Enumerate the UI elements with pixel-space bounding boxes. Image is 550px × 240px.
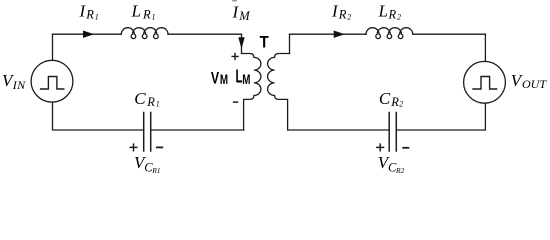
svg-text:I: I [331, 1, 339, 20]
minus sign at transformer primary bottom [234, 101, 238, 103]
svg-text:R: R [390, 95, 399, 109]
artifact mark top [232, 0, 237, 1]
svg-text:M: M [238, 9, 250, 23]
svg-text:2: 2 [397, 12, 401, 21]
source VOUT circle [464, 61, 506, 103]
transformer primary winding LM [242, 54, 261, 131]
svg-text:M: M [242, 72, 250, 88]
capacitor CR2 plates [389, 113, 396, 152]
svg-text:C: C [134, 89, 146, 108]
svg-text:1: 1 [152, 12, 156, 21]
svg-text:L: L [131, 1, 141, 20]
source VIN pulse symbol [41, 77, 64, 90]
current arrow IM [238, 37, 244, 49]
svg-text:2: 2 [399, 100, 403, 109]
wire top horizontal (LR1 to IM node) [168, 33, 242, 35]
svg-text:C: C [379, 89, 391, 108]
inductor LR1 [121, 28, 168, 39]
svg-text:R: R [85, 8, 94, 22]
svg-text:I: I [79, 1, 87, 20]
svg-text:R: R [142, 8, 151, 22]
wire bottom between transformer and CR2 [288, 129, 390, 131]
svg-text:OUT: OUT [522, 77, 547, 91]
svg-text:L: L [378, 1, 388, 20]
wire top-right vertical from transformer [289, 34, 291, 53]
svg-text:1: 1 [95, 12, 99, 21]
svg-text:R: R [146, 95, 155, 109]
plus sign CR2 [377, 144, 384, 151]
source VOUT pulse symbol [473, 77, 497, 90]
svg-text:R2: R2 [395, 166, 405, 175]
svg-text:R: R [338, 8, 347, 22]
svg-text:M: M [220, 72, 228, 88]
wire left vertical from VIN top [52, 34, 54, 60]
minus sign CR1 [157, 146, 163, 148]
svg-text:R: R [388, 8, 397, 22]
wire bottom between CR1 and transformer [151, 129, 244, 131]
minus sign CR2 [403, 147, 408, 149]
capacitor CR1 plates [144, 113, 151, 152]
wire VOUT top lead [484, 34, 486, 61]
svg-text:T: T [260, 34, 269, 52]
current arrow IR1 [83, 31, 94, 38]
wire top-left horizontal (VIN to LR1) [53, 33, 122, 35]
svg-text:1: 1 [156, 100, 160, 109]
source VIN circle [31, 60, 73, 102]
svg-text:R1: R1 [151, 166, 160, 175]
wire top-right horizontal (transformer to LR2) [290, 33, 367, 35]
svg-text:IN: IN [12, 78, 26, 92]
svg-text:L: L [236, 67, 243, 87]
plus sign at transformer primary top [232, 54, 238, 60]
inductor LR2 [366, 28, 413, 39]
wire top horizontal (LR2 to VOUT) [413, 33, 486, 35]
svg-text:I: I [232, 3, 240, 22]
svg-text:2: 2 [347, 12, 351, 21]
wire VIN bottom lead [53, 102, 144, 130]
transformer secondary winding [268, 54, 290, 131]
svg-text:V: V [211, 70, 219, 88]
plus sign CR1 [130, 144, 137, 151]
wire top vertical into transformer (IM branch) [241, 34, 243, 53]
current arrow IR2 [334, 31, 345, 38]
wire VOUT bottom lead [396, 103, 485, 130]
